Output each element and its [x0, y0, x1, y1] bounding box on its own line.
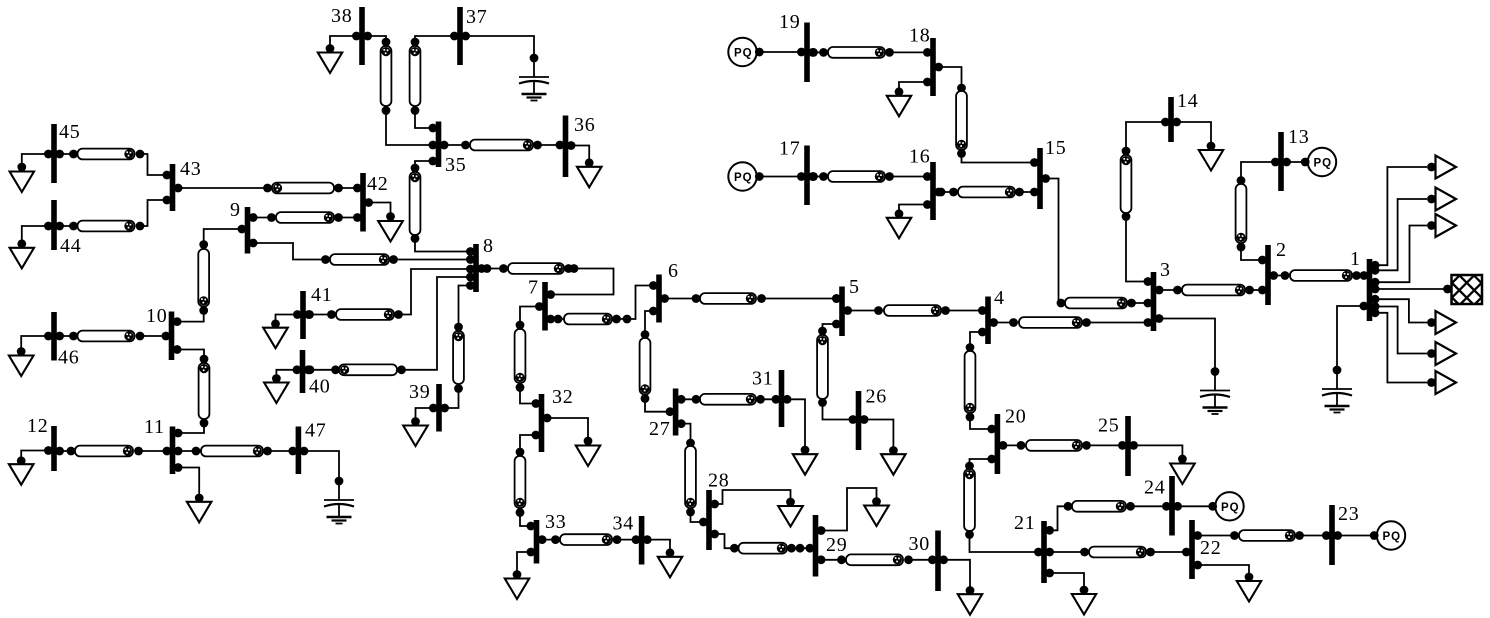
svg-text:43: 43 — [180, 158, 202, 180]
bus 47 — [296, 420, 327, 474]
bus 38 — [331, 5, 365, 65]
bus 3 — [1151, 259, 1171, 331]
svg-text:6: 6 — [668, 260, 679, 282]
svg-text:1: 1 — [1350, 248, 1361, 270]
shunt capacitor at bus 3 — [1155, 314, 1230, 414]
ground at bus 39 — [403, 404, 438, 446]
bus 41 — [300, 284, 332, 339]
bus 43 — [170, 158, 202, 211]
ground at bus 31 — [783, 395, 818, 475]
svg-text:34: 34 — [613, 513, 635, 535]
bus 11 — [144, 416, 175, 474]
bus 19 — [779, 11, 810, 82]
ground at bus 33 — [505, 548, 536, 599]
ground at bus 14 — [1172, 118, 1223, 171]
transmission line 16-15 — [934, 187, 1039, 198]
PQ load at bus 23 — [1333, 521, 1405, 549]
bus 24 — [1144, 476, 1175, 536]
bus 10 — [146, 305, 174, 360]
svg-text:40: 40 — [309, 376, 331, 398]
bus 42 — [360, 173, 388, 232]
svg-text:41: 41 — [311, 284, 333, 306]
transmission line 4-20 (vertical) — [965, 328, 997, 434]
svg-text:44: 44 — [60, 235, 82, 257]
svg-text:35: 35 — [445, 154, 467, 176]
transmission line 5-26 (vertical) — [817, 320, 857, 424]
ground at bus 28 — [710, 490, 803, 527]
bus 44 — [51, 200, 81, 257]
svg-text:45: 45 — [59, 121, 81, 143]
svg-text:7: 7 — [528, 277, 539, 299]
svg-text:37: 37 — [466, 6, 488, 28]
transmission line 3-2 — [1155, 285, 1267, 296]
output arrow 5 — [1371, 302, 1456, 365]
bus 27 — [649, 389, 678, 441]
PQ load at bus 19 — [728, 38, 806, 66]
transmission line 9-8 — [249, 239, 475, 265]
ground at bus 26 — [860, 415, 906, 475]
ground at bus 36 — [567, 141, 602, 187]
PQ load at bus 17 — [728, 162, 806, 190]
transmission line 5-4 — [843, 305, 987, 316]
svg-text:22: 22 — [1200, 537, 1222, 559]
svg-text:PQ: PQ — [1383, 531, 1402, 543]
svg-text:PQ: PQ — [1314, 158, 1333, 170]
transmission line 20-25 — [999, 440, 1127, 451]
svg-text:9: 9 — [230, 199, 241, 221]
svg-text:19: 19 — [779, 11, 801, 33]
ground at bus 44 — [10, 222, 53, 269]
transmission line 13-2 (vertical) — [1236, 158, 1280, 265]
external grid (slack) at bus 1 — [1371, 275, 1490, 304]
bus 32 — [539, 386, 574, 452]
ground at bus 16 — [887, 200, 932, 238]
svg-text:25: 25 — [1098, 415, 1120, 437]
ground at bus 22 — [1193, 561, 1261, 602]
PQ load at bus 24 — [1173, 492, 1244, 520]
transmission line 15-3 — [1041, 174, 1152, 308]
ground at bus 46 — [9, 332, 53, 376]
svg-text:33: 33 — [545, 511, 567, 533]
bus 39 — [409, 381, 442, 431]
svg-text:32: 32 — [552, 386, 574, 408]
transmission line 4-3 — [989, 317, 1152, 328]
transmission line 35-36 — [440, 140, 565, 151]
svg-text:20: 20 — [1005, 406, 1027, 428]
bus 2 — [1265, 239, 1287, 305]
transmission line 6-27 (vertical) — [640, 307, 675, 417]
transmission line 27-31 — [677, 394, 781, 405]
bus 17 — [779, 138, 810, 205]
transmission line 11-47 — [174, 446, 297, 457]
transmission line 7-6 — [546, 281, 658, 324]
transmission line 35-8 (vertical) — [410, 157, 475, 256]
shunt capacitor at bus 1 — [1322, 302, 1368, 413]
shunt capacitor at bus 37 — [461, 32, 549, 101]
bus 16 — [909, 146, 936, 220]
transmission line 12-11 — [55, 446, 171, 457]
svg-text:47: 47 — [305, 420, 327, 442]
transmission line 22-23 — [1193, 530, 1331, 541]
svg-text:11: 11 — [144, 416, 165, 438]
transmission line 8-7 — [477, 263, 613, 299]
output arrow 6 — [1371, 308, 1456, 394]
transmission line 10-11 (vertical) — [173, 345, 210, 437]
svg-text:24: 24 — [1144, 477, 1166, 499]
transmission line 33-34 — [538, 534, 641, 545]
bus 31 — [752, 368, 784, 427]
ground at bus 34 — [643, 535, 682, 577]
svg-text:16: 16 — [909, 146, 931, 168]
ground at bus 12 — [9, 446, 53, 485]
svg-text:29: 29 — [826, 534, 848, 556]
svg-text:21: 21 — [1014, 512, 1036, 534]
transmission line 41-8 — [304, 265, 475, 320]
bus 13 — [1278, 126, 1309, 191]
shunt capacitor at bus 47 — [300, 447, 354, 524]
svg-text:PQ: PQ — [734, 48, 753, 60]
transmission line 21-24 — [1045, 501, 1171, 535]
bus 4 — [985, 287, 1005, 344]
bus 33 — [534, 511, 567, 563]
svg-text:8: 8 — [483, 235, 494, 257]
svg-text:27: 27 — [649, 418, 671, 440]
bus 22 — [1189, 520, 1221, 579]
bus 18 — [909, 25, 936, 96]
ground at bus 42 — [364, 198, 403, 241]
bus 26 — [856, 386, 887, 450]
bus 34 — [613, 513, 645, 565]
svg-text:31: 31 — [752, 368, 774, 390]
svg-text:38: 38 — [331, 5, 353, 27]
transmission line 32-33 (vertical) — [515, 431, 541, 531]
bus 36 — [563, 114, 596, 177]
ground at bus 40 — [264, 365, 301, 403]
bus 9 — [230, 199, 250, 253]
ground at bus 11 — [174, 463, 212, 522]
bus 46 — [51, 312, 79, 369]
bus 20 — [995, 406, 1027, 474]
svg-text:36: 36 — [574, 114, 596, 136]
bus 21 — [1014, 512, 1047, 583]
transmission line 18-15 (vertical) — [934, 63, 1039, 167]
transmission line 40-8 — [304, 273, 475, 376]
transmission line 7-32 (vertical) — [515, 302, 544, 408]
svg-text:14: 14 — [1177, 90, 1199, 112]
svg-text:10: 10 — [146, 305, 168, 327]
bus 29 — [813, 515, 848, 577]
ground at bus 41 — [263, 310, 302, 348]
transmission line 20-21 (vertical) — [964, 455, 1043, 557]
bus 8 — [473, 235, 494, 292]
bus 12 — [27, 415, 57, 471]
output arrow 2 — [1371, 188, 1456, 275]
transmission line 9-10 (vertical) — [173, 225, 247, 326]
output arrow 1 — [1371, 156, 1456, 270]
svg-text:42: 42 — [367, 173, 389, 195]
svg-text:23: 23 — [1338, 503, 1360, 525]
bus 7 — [528, 277, 548, 331]
svg-text:2: 2 — [1276, 239, 1287, 261]
transmission line 14-3 (vertical) — [1121, 118, 1170, 286]
svg-text:39: 39 — [409, 381, 431, 403]
transmission line 45-43 — [55, 149, 171, 180]
ground at bus 25 — [1129, 441, 1195, 484]
bus 5 — [839, 276, 860, 336]
bus 35 — [436, 122, 467, 177]
svg-text:5: 5 — [849, 276, 860, 298]
svg-text:PQ: PQ — [1221, 502, 1240, 514]
svg-text:15: 15 — [1045, 137, 1067, 159]
transmission line 9-42 — [249, 212, 362, 223]
bus 28 — [706, 470, 729, 550]
ground at bus 30 — [939, 555, 982, 614]
ground at bus 21 — [1045, 569, 1096, 615]
svg-text:13: 13 — [1288, 126, 1310, 148]
bus 37 — [457, 6, 487, 65]
output arrow 4 — [1371, 295, 1456, 334]
transmission line 17-16 — [808, 171, 932, 182]
bus 1 — [1350, 248, 1372, 321]
svg-text:17: 17 — [779, 138, 801, 160]
bus 25 — [1098, 415, 1131, 476]
svg-text:4: 4 — [994, 287, 1005, 309]
transmission line 29-30 — [817, 554, 937, 565]
svg-text:12: 12 — [27, 415, 49, 437]
transmission line 2-1 — [1269, 270, 1368, 281]
bus 6 — [656, 260, 679, 322]
transmission line 46-10 — [55, 331, 170, 342]
bus 40 — [300, 350, 331, 398]
PQ load at bus 13 — [1282, 148, 1336, 176]
transmission line 19-18 — [808, 47, 932, 58]
transmission line 27-28 (vertical) — [677, 419, 708, 526]
ground at bus 32 — [543, 414, 601, 466]
transmission line 37-35 (vertical) — [410, 32, 459, 133]
ground at bus 29 — [817, 488, 889, 535]
svg-text:28: 28 — [708, 470, 730, 492]
transmission line 6-5 — [660, 293, 841, 304]
bus 23 — [1329, 503, 1359, 565]
svg-text:46: 46 — [58, 347, 80, 369]
bus 14 — [1168, 90, 1198, 142]
ground at bus 38 — [318, 32, 361, 73]
transmission line 43-42 — [174, 183, 362, 194]
ground at bus 18 — [887, 78, 932, 117]
svg-text:PQ: PQ — [734, 172, 753, 184]
bus 45 — [51, 121, 80, 183]
ground at bus 45 — [10, 150, 53, 192]
svg-text:26: 26 — [866, 386, 888, 408]
svg-text:18: 18 — [909, 25, 931, 47]
bus 30 — [909, 531, 941, 592]
svg-text:30: 30 — [909, 533, 931, 555]
transmission line 44-43 — [55, 196, 171, 232]
output arrow 3 — [1371, 214, 1456, 287]
transmission line 38-35 (vertical) — [363, 32, 437, 150]
transmission line 28-29 — [710, 530, 814, 554]
svg-text:3: 3 — [1160, 259, 1171, 281]
transmission line 8-39 (vertical) — [440, 281, 475, 412]
bus 15 — [1037, 137, 1066, 209]
transmission line 21-22 — [1045, 547, 1191, 558]
